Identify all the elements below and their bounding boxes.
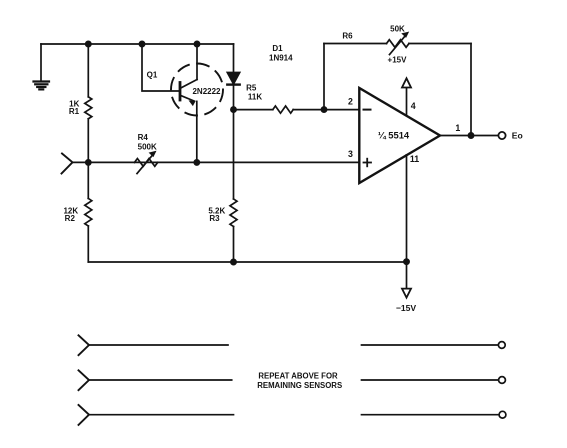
svg-text:3: 3 (348, 149, 353, 159)
svg-text:11K: 11K (248, 92, 262, 101)
wire feedback left vertical (323, 44, 325, 110)
wire R5 to op-amp pin 2 (293, 109, 359, 111)
power -15V arrow (402, 289, 411, 298)
node junction output / feedback (468, 133, 473, 138)
node junction R3 / bottom rail (231, 259, 236, 264)
svg-text:D1: D1 (272, 44, 283, 53)
wire R2 top lead (87, 162, 89, 198)
svg-text:Q1: Q1 (147, 70, 158, 79)
svg-text:+15V: +15V (388, 56, 408, 65)
node junction D1 / R5 / R3 (231, 107, 236, 112)
wire R1 bottom lead (87, 119, 89, 163)
sensor line 1 left wire (89, 344, 228, 346)
power +15V pin 4 arrow (402, 78, 411, 115)
node junction R1 top (86, 41, 91, 46)
svg-text:1N914: 1N914 (269, 53, 293, 62)
wire bottom rail (88, 261, 406, 263)
wire top supply rail (41, 43, 234, 45)
wire input line to pin 3 (73, 161, 360, 163)
resistor R5 (273, 106, 293, 113)
sensor line 1 right wire (362, 344, 499, 346)
svg-text:1: 1 (455, 123, 460, 133)
wire feedback rail right (409, 43, 471, 45)
node junction input / R1 R2 (86, 160, 91, 165)
svg-text:−15V: −15V (396, 303, 417, 313)
sensor line 3 left wire (89, 414, 234, 416)
svg-text:11: 11 (410, 154, 419, 164)
svg-text:R5: R5 (246, 83, 257, 92)
wire R2 bottom lead (87, 226, 89, 262)
wire R5 left lead (234, 109, 273, 111)
node junction Q1 collector column top (194, 41, 199, 46)
wire R3 bottom lead (233, 227, 235, 263)
svg-text:R6: R6 (342, 31, 353, 40)
wire Q1 base column (142, 44, 179, 91)
wire R3 column upper (233, 110, 235, 199)
resistor R3 (230, 199, 237, 227)
sensor line 3 arrow (79, 405, 90, 425)
terminal Eo (498, 132, 505, 139)
svg-text:500K: 500K (138, 143, 157, 152)
svg-text:4: 4 (411, 101, 416, 111)
svg-text:2: 2 (348, 96, 353, 106)
node junction feedback / pin 2 (321, 107, 326, 112)
op-amp plus sign pin 3 (364, 159, 372, 167)
svg-text:REMAINING SENSORS: REMAINING SENSORS (257, 381, 342, 390)
sensor line 1 arrow (79, 335, 90, 355)
svg-text:REPEAT ABOVE FOR: REPEAT ABOVE FOR (258, 372, 338, 381)
wire Q1 emitter lead (196, 101, 198, 162)
potentiometer R6 50K (387, 32, 410, 54)
svg-text:R1: R1 (69, 107, 80, 116)
sensor line 2 arrow (79, 370, 90, 390)
op-amp U1 (359, 88, 440, 183)
svg-text:2N2222: 2N2222 (192, 87, 221, 96)
wire Q1 collector lead (196, 44, 198, 80)
potentiometer R4 500K (135, 152, 158, 174)
resistor R1 (85, 97, 92, 119)
sensor line 3 terminal (499, 411, 506, 418)
node junction Q1 base column top (139, 41, 144, 46)
node junction pin 11 / bottom rail (404, 259, 409, 264)
wire op-amp pin 11 lead (406, 155, 408, 288)
svg-text:Eo: Eo (512, 130, 523, 140)
wire feedback rail left (324, 43, 387, 45)
svg-text:R4: R4 (138, 133, 149, 142)
sensor line 1 terminal (498, 342, 505, 349)
node junction input / emitter (194, 160, 199, 165)
op-amp minus sign pin 2 (364, 109, 371, 111)
svg-text:50K: 50K (390, 25, 405, 34)
sensor line 2 terminal (499, 377, 506, 384)
resistor R2 (85, 198, 92, 226)
wire feedback right vertical (470, 44, 472, 136)
wire op-amp output (440, 135, 498, 137)
wire R1 top lead (87, 44, 89, 97)
svg-text:R3: R3 (209, 214, 220, 223)
ground (34, 44, 50, 89)
svg-text:¼ 5514: ¼ 5514 (378, 130, 410, 141)
sensor line 2 left wire (89, 379, 232, 381)
sensor line 2 right wire (362, 379, 499, 381)
transistor Q1 (171, 64, 223, 116)
diode D1 (227, 44, 239, 110)
input arrow sensor (62, 154, 73, 174)
sensor line 3 right wire (362, 414, 499, 416)
svg-text:R2: R2 (65, 214, 76, 223)
